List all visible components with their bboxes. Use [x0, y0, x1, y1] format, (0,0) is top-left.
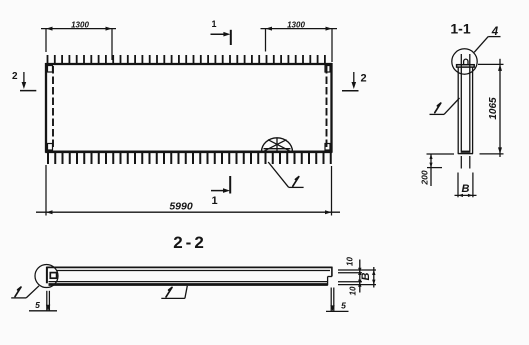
svg-text:2: 2 — [12, 71, 18, 82]
svg-text:1065: 1065 — [488, 97, 499, 120]
svg-text:2-2: 2-2 — [173, 233, 207, 252]
svg-text:1300: 1300 — [71, 20, 89, 29]
svg-text:5: 5 — [35, 300, 40, 310]
svg-text:5: 5 — [341, 301, 346, 311]
svg-text:5990: 5990 — [169, 201, 193, 213]
svg-text:200: 200 — [419, 170, 429, 185]
svg-text:1-1: 1-1 — [450, 20, 470, 36]
svg-text:1: 1 — [211, 195, 217, 207]
svg-text:10: 10 — [346, 257, 355, 266]
svg-text:10: 10 — [349, 286, 358, 295]
svg-text:4: 4 — [491, 26, 499, 38]
svg-text:1300: 1300 — [287, 20, 305, 29]
svg-text:В: В — [360, 272, 372, 280]
svg-text:В: В — [462, 183, 470, 195]
svg-text:2: 2 — [360, 73, 366, 85]
svg-text:1: 1 — [211, 19, 216, 29]
